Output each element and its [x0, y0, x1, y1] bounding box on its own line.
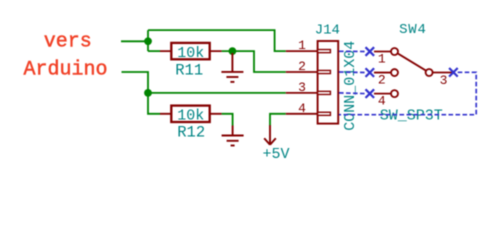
- svg-text:SW_SP3T: SW_SP3T: [380, 108, 443, 125]
- svg-text:10k: 10k: [177, 45, 204, 62]
- svg-text:R11: R11: [175, 62, 203, 80]
- svg-text:1: 1: [378, 51, 386, 66]
- svg-text:Arduino: Arduino: [23, 59, 107, 82]
- svg-text:+5V: +5V: [262, 146, 289, 163]
- svg-text:J14: J14: [315, 22, 340, 38]
- svg-text:4: 4: [298, 101, 306, 116]
- svg-text:SW4: SW4: [399, 22, 427, 38]
- svg-text:10k: 10k: [177, 107, 204, 124]
- svg-text:2: 2: [378, 73, 386, 88]
- svg-text:vers: vers: [44, 30, 92, 53]
- svg-text:1: 1: [298, 38, 306, 53]
- svg-text:2: 2: [298, 59, 306, 74]
- svg-text:4: 4: [378, 94, 386, 109]
- svg-text:R12: R12: [177, 124, 205, 142]
- svg-text:3: 3: [440, 73, 448, 88]
- svg-text:CONN_01X04: CONN_01X04: [342, 41, 359, 131]
- svg-text:3: 3: [298, 80, 306, 95]
